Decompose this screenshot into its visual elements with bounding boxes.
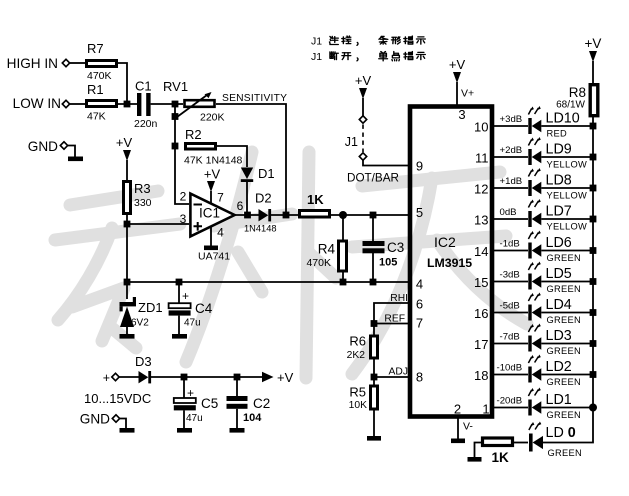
- svg-text:+V: +V: [355, 73, 372, 88]
- svg-text:-1dB: -1dB: [500, 239, 520, 250]
- svg-text:R4: R4: [318, 242, 336, 257]
- resistor R7: [87, 61, 117, 67]
- svg-text:10: 10: [474, 120, 488, 135]
- svg-text:68/1W: 68/1W: [556, 100, 585, 111]
- wire: [271, 214, 299, 216]
- svg-text:D3: D3: [135, 354, 152, 369]
- node LD9 bus node: [590, 154, 597, 161]
- wire to R8: [592, 61, 594, 85]
- hanzi shi 示: [416, 52, 425, 59]
- svg-text:-20dB: -20dB: [497, 396, 523, 407]
- svg-text:470K: 470K: [87, 70, 112, 82]
- wire R2 to D1: [217, 146, 247, 167]
- LED LD7: [528, 199, 541, 227]
- svg-text:18: 18: [474, 368, 488, 383]
- IC1 minus input mark: [194, 204, 203, 206]
- wire LD2 anode: [541, 374, 590, 376]
- hanzi comma: [357, 42, 358, 45]
- wire RV1 right to feedback node: [216, 104, 286, 212]
- node C2 node: [234, 374, 241, 381]
- wire LED anode bus: [592, 116, 594, 409]
- svg-text:15: 15: [474, 275, 488, 290]
- svg-text:V-: V-: [463, 421, 473, 433]
- wire C3 bottom stub: [372, 253, 374, 284]
- node LD8 bus node: [590, 185, 597, 192]
- svg-text:GREEN: GREEN: [548, 448, 583, 458]
- svg-text:330: 330: [134, 197, 152, 209]
- svg-text:ZD1: ZD1: [138, 300, 163, 315]
- wire ZD1 bottom stub: [126, 327, 128, 335]
- wire ADJ to R5: [373, 377, 375, 386]
- node IC1 pin3 node: [124, 221, 131, 228]
- svg-text:11: 11: [475, 151, 489, 166]
- svg-text:LD3: LD3: [546, 328, 572, 344]
- node C5 node: [181, 374, 188, 381]
- node rail/ZD1 node: [124, 279, 131, 286]
- hanzi lian 连: [329, 36, 338, 44]
- power +V arrow R3 branch: [123, 150, 131, 161]
- capacitor C1: [137, 93, 141, 116]
- node ADJ node: [371, 374, 378, 381]
- svg-text:LD10: LD10: [546, 111, 580, 127]
- wire R6 to ADJ node: [373, 358, 375, 377]
- wire IC2 pin2 to ground: [457, 417, 459, 439]
- node LD3 bus node: [590, 340, 597, 347]
- node RV1 left: [172, 101, 179, 108]
- wire bus to LD0: [543, 408, 593, 443]
- node R7/R1 junction: [124, 101, 131, 108]
- resistor 1K (signal): [300, 211, 330, 218]
- wire LD3 anode: [541, 343, 590, 345]
- wire D1 to output node: [246, 182, 248, 212]
- wire: [126, 214, 128, 285]
- watermark "云外天" light gray: [55, 152, 527, 378]
- svg-text:10K: 10K: [349, 400, 367, 411]
- svg-text:IC1: IC1: [199, 206, 220, 221]
- svg-text:GREEN: GREEN: [547, 284, 582, 294]
- svg-text:+V: +V: [585, 36, 602, 51]
- wire IC2 V+ supply: [456, 82, 458, 106]
- svg-text:2: 2: [454, 402, 461, 417]
- svg-text:R5: R5: [349, 385, 366, 400]
- hanzi dan 单: [379, 52, 388, 61]
- terminal GND top: [60, 142, 67, 149]
- node REF node: [371, 320, 378, 327]
- wire R4 bottom stub: [342, 271, 344, 284]
- svg-text:-5dB: -5dB: [500, 301, 520, 312]
- node LD6 bus node: [590, 247, 597, 254]
- wire C4 bottom stub: [178, 316, 180, 335]
- svg-text:LD4: LD4: [546, 297, 572, 313]
- svg-text:C4: C4: [195, 301, 213, 316]
- svg-text:R2: R2: [185, 127, 202, 142]
- hanzi kai 开: [342, 53, 351, 60]
- wire LD6 anode: [541, 250, 590, 252]
- svg-text:LD8: LD8: [546, 173, 572, 189]
- wire to IC1 pin3: [127, 223, 189, 225]
- resistor R6: [371, 336, 378, 358]
- svg-text:GND: GND: [28, 139, 58, 154]
- wire LD9 anode: [541, 156, 590, 158]
- terminal supply +: [112, 373, 119, 380]
- svg-text:47K: 47K: [87, 111, 106, 123]
- wire ZD1 top stub: [126, 282, 128, 299]
- capacitor C3: [363, 241, 385, 246]
- node LD10 bus node: [590, 123, 597, 130]
- svg-text:R1: R1: [87, 82, 104, 97]
- svg-text:+V: +V: [449, 57, 466, 72]
- resistor 1K (LD0): [483, 438, 513, 446]
- svg-text:+2dB: +2dB: [500, 145, 523, 156]
- wire LD8 anode: [541, 187, 590, 189]
- svg-text:GREEN: GREEN: [547, 410, 582, 420]
- node C3 top node: [370, 212, 377, 219]
- wire 1K to LD0: [513, 442, 529, 444]
- svg-text:J1: J1: [345, 135, 358, 149]
- wire LD10 anode: [541, 125, 590, 127]
- svg-text:V+: V+: [461, 88, 474, 100]
- wire: [120, 376, 140, 378]
- svg-text:220n: 220n: [134, 118, 158, 130]
- svg-text:ADJ: ADJ: [389, 367, 408, 378]
- wire C5 bottom stub: [183, 410, 185, 429]
- power +V arrow IC1 supply: [207, 181, 215, 192]
- svg-text:9: 9: [416, 159, 423, 174]
- node R4 top node: [339, 211, 347, 219]
- svg-text:4: 4: [416, 277, 423, 292]
- wire: [70, 62, 86, 64]
- svg-text:220K: 220K: [200, 112, 225, 124]
- terminal HIGH IN: [62, 59, 69, 66]
- terminal J1 upper: [359, 116, 366, 123]
- svg-text:LD 0: LD 0: [546, 425, 576, 441]
- wire: [118, 63, 127, 101]
- svg-text:J1: J1: [311, 51, 322, 63]
- svg-text:47u: 47u: [184, 318, 201, 329]
- hanzi shi 示: [416, 37, 425, 44]
- svg-text:1: 1: [482, 402, 489, 417]
- svg-text:+V: +V: [204, 167, 221, 182]
- wire IC2 pin 12 to LD8: [492, 187, 528, 189]
- IC U2 LM3915 body: [410, 107, 492, 417]
- wire C4 top stub: [178, 282, 180, 303]
- power +V arrow IC2 supply: [453, 72, 461, 83]
- wire RHI: [374, 303, 410, 326]
- hanzi comma: [357, 58, 358, 61]
- svg-text:GREEN: GREEN: [547, 253, 582, 263]
- svg-text:LD2: LD2: [546, 359, 572, 375]
- diode D2: [259, 209, 269, 221]
- node rail/R4 node: [340, 279, 347, 286]
- LED LD2: [528, 355, 541, 383]
- svg-text:6: 6: [416, 297, 423, 312]
- potentiometer RV1: [185, 100, 215, 107]
- svg-text:DOT/BAR: DOT/BAR: [347, 172, 399, 185]
- svg-text:47u: 47u: [186, 413, 203, 424]
- svg-text:LD6: LD6: [546, 235, 572, 251]
- svg-text:1N4148: 1N4148: [244, 224, 277, 234]
- terminal GND bottom: [112, 415, 119, 422]
- svg-text:3: 3: [180, 212, 187, 226]
- ground C2: [230, 428, 245, 433]
- op-amp IC1: [190, 194, 234, 237]
- hanzi xing 形: [391, 37, 400, 44]
- svg-text:+V: +V: [277, 370, 294, 385]
- wire J1 to IC2 pin9: [363, 160, 410, 166]
- wire R5 to ground: [373, 409, 375, 437]
- power +V arrow J1 branch: [359, 88, 367, 99]
- svg-text:YELLOW: YELLOW: [547, 190, 588, 200]
- LED LD8: [528, 168, 541, 196]
- LED LD9: [528, 137, 541, 165]
- svg-text:C2: C2: [253, 396, 270, 411]
- node LD1 bus node: [589, 404, 597, 412]
- wire ADJ: [374, 376, 410, 378]
- svg-text:16: 16: [474, 306, 488, 321]
- wire: [68, 146, 75, 158]
- wire: [70, 103, 86, 105]
- node LD5 bus node: [590, 278, 597, 285]
- wire REF: [374, 323, 410, 325]
- svg-text:C5: C5: [201, 396, 218, 411]
- svg-text:+: +: [103, 371, 110, 385]
- svg-text:2K2: 2K2: [347, 350, 366, 361]
- ground ZD1: [120, 334, 135, 339]
- wire IC2 pin 16 to LD4: [492, 312, 528, 314]
- svg-text:RED: RED: [547, 128, 568, 138]
- wire 1K to IC2 pin5: [331, 214, 410, 216]
- svg-text:J1: J1: [311, 36, 322, 48]
- diode D1: [241, 168, 253, 180]
- wire C2 top stub: [236, 377, 238, 396]
- wire IC2 pin 14 to LD6: [492, 250, 528, 252]
- wire C2 bottom stub: [236, 409, 238, 429]
- svg-text:6V2: 6V2: [131, 318, 149, 329]
- svg-text:4: 4: [217, 226, 224, 240]
- node rail/C4 node: [176, 279, 183, 286]
- svg-text:47K 1N4148: 47K 1N4148: [184, 155, 243, 167]
- wire C3 top stub: [372, 215, 374, 241]
- svg-text:YELLOW: YELLOW: [547, 159, 588, 169]
- svg-text:-7dB: -7dB: [500, 332, 520, 343]
- wire IC2 pin 15 to LD5: [492, 281, 528, 283]
- svg-text:GND: GND: [80, 412, 110, 427]
- wire to R6: [373, 324, 375, 337]
- LED LD4: [528, 293, 541, 321]
- zener diode ZD1: [120, 307, 134, 328]
- svg-text:C3: C3: [387, 240, 404, 255]
- capacitor C2: [227, 396, 248, 401]
- svg-text:2: 2: [180, 190, 187, 204]
- wire IC1 pin4: [210, 226, 212, 246]
- RV1 wiper arrow: [177, 95, 207, 117]
- svg-text:12: 12: [474, 182, 488, 197]
- svg-text:D1: D1: [258, 166, 275, 181]
- svg-text:6: 6: [237, 199, 244, 213]
- wire supply rail: [151, 376, 262, 378]
- svg-text:SENSITIVITY: SENSITIVITY: [222, 93, 287, 104]
- svg-text:R8: R8: [569, 85, 586, 100]
- svg-text:UA741: UA741: [198, 251, 230, 263]
- hanzi zhi 指: [404, 52, 413, 60]
- svg-text:LD9: LD9: [546, 142, 572, 158]
- node wiper tie: [172, 113, 179, 120]
- resistor R2: [186, 144, 216, 150]
- wire IC2 pin 11 to LD9: [492, 156, 528, 158]
- hanzi dian 点: [392, 52, 399, 61]
- LED LD0: [529, 422, 543, 452]
- wire LD7 anode: [541, 218, 590, 220]
- wire IC2 pin 13 to LD7: [492, 218, 528, 220]
- node LD4 bus node: [590, 309, 597, 316]
- svg-text:LM3915: LM3915: [427, 256, 472, 270]
- svg-text:LOW IN: LOW IN: [13, 96, 61, 111]
- svg-text:GREEN: GREEN: [547, 377, 582, 387]
- svg-text:-10dB: -10dB: [497, 363, 523, 374]
- svg-text:RV1: RV1: [163, 79, 188, 94]
- LED LD1: [528, 388, 541, 416]
- wire IC1 output: [235, 214, 259, 216]
- svg-text:+1dB: +1dB: [500, 176, 523, 187]
- svg-text:GREEN: GREEN: [547, 346, 582, 356]
- hanzi jie 接: [342, 36, 351, 44]
- svg-text:0dB: 0dB: [500, 207, 517, 218]
- power +V arrow right: [262, 372, 274, 382]
- node R2 left junction: [172, 143, 179, 150]
- svg-text:1K: 1K: [307, 192, 324, 207]
- ground C4: [172, 334, 187, 339]
- svg-text:LD5: LD5: [546, 266, 572, 282]
- LED LD3: [528, 324, 541, 352]
- wire 1K to ground: [475, 443, 482, 458]
- wire: [126, 160, 128, 182]
- resistor R5: [371, 386, 378, 409]
- svg-text:17: 17: [474, 337, 488, 352]
- svg-text:7: 7: [416, 316, 423, 331]
- svg-text:GREEN: GREEN: [547, 315, 582, 325]
- wire LD5 anode: [541, 281, 590, 283]
- diode D3: [139, 371, 149, 383]
- ground IC1 pin4: [204, 246, 218, 251]
- wire feedback to IC1 pin2: [175, 104, 189, 204]
- wire: [118, 103, 137, 105]
- hanzi tiao 条: [379, 36, 388, 44]
- svg-text:HIGH IN: HIGH IN: [7, 56, 58, 71]
- wire IC2 pin 17 to LD3: [492, 343, 528, 345]
- wire J1 top: [362, 98, 364, 116]
- ground 1K LD0: [468, 457, 482, 462]
- ground R5: [367, 436, 381, 441]
- svg-text:3: 3: [458, 107, 465, 122]
- resistor R1: [87, 101, 117, 107]
- wire IC2 pin 18 to LD2: [492, 374, 528, 376]
- terminal LOW IN: [62, 100, 69, 107]
- svg-text:8: 8: [416, 370, 423, 385]
- svg-text:14: 14: [474, 244, 488, 259]
- svg-text:R3: R3: [134, 181, 151, 196]
- svg-text:LD1: LD1: [546, 392, 572, 408]
- wire IC2 pin 1 to LD1: [492, 407, 528, 409]
- svg-text:C1: C1: [135, 79, 152, 94]
- svg-text:1K: 1K: [492, 450, 510, 465]
- node sensitivity feedback node: [283, 212, 290, 219]
- ground GND bottom: [120, 428, 135, 433]
- svg-text:YELLOW: YELLOW: [547, 221, 588, 231]
- ground GND top: [68, 157, 83, 162]
- wire: [120, 419, 126, 429]
- node output node: [244, 212, 251, 219]
- ground C5: [177, 428, 192, 433]
- resistor R3: [124, 182, 131, 214]
- hanzi duan 断: [330, 52, 338, 60]
- LED LD5: [528, 262, 541, 290]
- LED LD10: [528, 106, 541, 134]
- svg-text:5: 5: [416, 205, 423, 220]
- node rail/C3 node: [370, 279, 377, 286]
- node LD7 bus node: [590, 216, 597, 223]
- jumper J1 dashed link: [362, 125, 364, 153]
- wire R4 top stub: [342, 215, 344, 241]
- svg-text:R7: R7: [87, 41, 104, 56]
- svg-text:+: +: [182, 289, 189, 303]
- wire LD4 anode: [541, 312, 590, 314]
- svg-text:10...15VDC: 10...15VDC: [84, 391, 151, 406]
- wire IC1 pin7: [210, 191, 212, 204]
- wire LD1 anode: [541, 407, 590, 409]
- wire rail to IC2 pin4: [127, 281, 410, 283]
- resistor R4: [339, 241, 347, 271]
- svg-text:-3dB: -3dB: [500, 270, 520, 281]
- svg-text:104: 104: [243, 412, 262, 424]
- resistor R8: [590, 85, 598, 116]
- node LD2 bus node: [590, 371, 597, 378]
- svg-text:R6: R6: [349, 334, 366, 349]
- svg-text:LD7: LD7: [546, 204, 572, 220]
- ground IC2 pin2: [451, 439, 465, 444]
- terminal J1 lower: [359, 153, 366, 160]
- IC1 plus input mark: [194, 222, 203, 231]
- svg-text:+3dB: +3dB: [500, 114, 523, 125]
- wire: [151, 103, 183, 105]
- svg-text:+V: +V: [116, 135, 133, 150]
- wire IC2 pin 10 to LD10: [492, 125, 528, 127]
- svg-text:13: 13: [474, 213, 488, 228]
- power +V arrow LED supply: [589, 51, 597, 62]
- svg-text:IC2: IC2: [434, 234, 456, 250]
- svg-text:470K: 470K: [306, 257, 331, 269]
- svg-text:D2: D2: [255, 191, 272, 206]
- hanzi zhi 指: [404, 36, 413, 44]
- LED LD6: [528, 231, 541, 259]
- wire C5 top stub: [183, 377, 185, 398]
- svg-text:105: 105: [379, 257, 397, 269]
- svg-text:7: 7: [217, 191, 224, 205]
